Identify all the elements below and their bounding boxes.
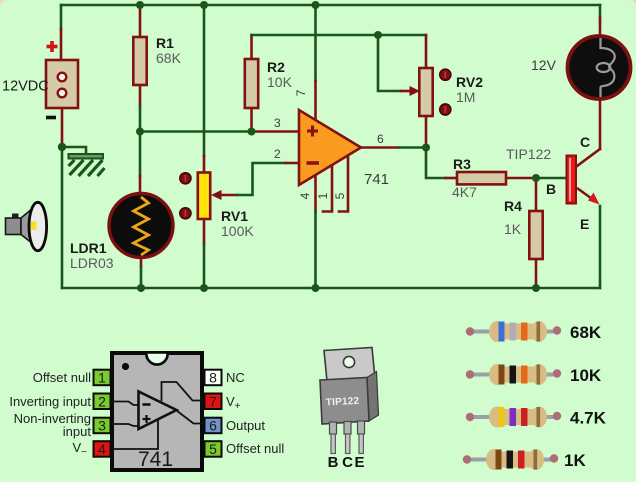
wire R4 bottom to bus bbox=[535, 259, 538, 288]
resistor colour code 4.7K bbox=[466, 407, 607, 428]
op-amp U1 741 bbox=[299, 110, 389, 188]
wire V+ horizontal net R2 to RV2 bbox=[252, 34, 427, 37]
svg-text:1: 1 bbox=[98, 370, 106, 386]
pin 7 bbox=[205, 394, 222, 410]
resistor colour code 1K bbox=[463, 449, 587, 470]
wire RV1 wiper to pin2 bbox=[215, 194, 237, 197]
svg-text:12VDC: 12VDC bbox=[2, 79, 49, 95]
pin labels left bbox=[9, 370, 91, 458]
wire bottom ground bus bbox=[62, 287, 600, 290]
svg-text:Output: Output bbox=[226, 418, 265, 433]
svg-text:7: 7 bbox=[209, 393, 217, 409]
svg-text:2: 2 bbox=[274, 147, 281, 161]
junction node 12VDC minus / ground bbox=[58, 143, 66, 151]
svg-text:RV2: RV2 bbox=[456, 74, 483, 90]
ground symbol bbox=[69, 154, 105, 176]
svg-text:input: input bbox=[63, 424, 92, 439]
leg E bbox=[358, 421, 365, 434]
svg-text:E: E bbox=[580, 216, 589, 232]
svg-text:6: 6 bbox=[377, 132, 384, 146]
pin 4 bbox=[94, 441, 111, 457]
wire output node down to R3 bbox=[426, 148, 446, 179]
pin 6 bbox=[205, 418, 222, 434]
svg-text:Offset null: Offset null bbox=[226, 441, 284, 456]
svg-text:12V: 12V bbox=[531, 57, 557, 73]
svg-text:4K7: 4K7 bbox=[452, 184, 477, 200]
svg-text:5: 5 bbox=[333, 192, 347, 199]
svg-text:Inverting input: Inverting input bbox=[9, 394, 91, 409]
leg B bbox=[330, 422, 337, 434]
svg-text:B: B bbox=[328, 454, 339, 471]
junction dot bus LDR bbox=[137, 284, 145, 292]
svg-text:3: 3 bbox=[274, 116, 281, 130]
svg-text:1K: 1K bbox=[504, 221, 522, 237]
wire lamp bottom collector bbox=[599, 100, 602, 149]
resistor colour code 68K bbox=[466, 321, 602, 342]
junction dot top rail pin7 bbox=[312, 1, 320, 9]
wire LDR bottom to bus bbox=[140, 257, 143, 267]
svg-text:TIP122: TIP122 bbox=[506, 146, 551, 162]
svg-text:100K: 100K bbox=[221, 223, 254, 239]
torch icon bbox=[6, 202, 47, 250]
TIP122 package drawing bbox=[320, 348, 379, 472]
wire node to LDR top bbox=[139, 176, 142, 194]
junction dot top rail RV1 bbox=[200, 1, 208, 9]
svg-text:7: 7 bbox=[294, 89, 308, 96]
svg-text:TIP122: TIP122 bbox=[326, 396, 360, 409]
junction dot V+ net RV2 wiper bbox=[374, 31, 382, 39]
leg C bbox=[344, 422, 351, 435]
wire R3 right to base node bbox=[506, 177, 536, 180]
svg-text:NC: NC bbox=[226, 370, 245, 385]
wire RV2 bottom stub bbox=[425, 116, 428, 148]
LDR LDR1 bbox=[70, 194, 173, 272]
svg-text:C: C bbox=[580, 134, 590, 150]
minus symbol bbox=[46, 116, 56, 120]
svg-text:LDR03: LDR03 bbox=[70, 255, 114, 271]
wire pin5 stub bbox=[339, 153, 348, 212]
wire connector minus down bbox=[61, 108, 64, 147]
svg-text:Offset null: Offset null bbox=[33, 370, 91, 385]
wire red stub into connector plus bbox=[60, 29, 63, 62]
wire pin4 to bus bbox=[314, 172, 317, 212]
junction dot output node bbox=[422, 144, 430, 152]
connector 12VDC body bbox=[46, 60, 78, 108]
svg-text:R3: R3 bbox=[453, 156, 471, 172]
wire R1 top stub bbox=[139, 5, 142, 37]
svg-text:1: 1 bbox=[316, 192, 330, 199]
svg-text:5: 5 bbox=[209, 441, 217, 457]
wire emitter to bus bbox=[599, 206, 602, 288]
pin labels right bbox=[226, 370, 284, 456]
wire R2 bottom stub bbox=[250, 108, 253, 132]
wire left ground rail down bbox=[61, 147, 64, 288]
junction dot bus pin4 bbox=[312, 284, 320, 292]
svg-text:R4: R4 bbox=[504, 198, 522, 214]
junction dot pin3 node R1 bbox=[136, 128, 144, 136]
wire pin6 output bbox=[361, 146, 399, 149]
pin 8 bbox=[205, 370, 222, 386]
resistor colour code 10K bbox=[466, 364, 602, 385]
svg-text:LDR1: LDR1 bbox=[70, 240, 107, 256]
resistor R3 bbox=[457, 172, 506, 184]
transistor Q1 TIP122 bbox=[506, 134, 600, 232]
wire RV2 wiper branch bbox=[378, 35, 401, 91]
potentiometer RV1 bbox=[180, 173, 255, 240]
wire R4 top stub bbox=[535, 178, 538, 211]
svg-text:741: 741 bbox=[364, 171, 389, 188]
pin 3 bbox=[94, 418, 111, 434]
svg-text:B: B bbox=[546, 181, 556, 197]
svg-text:R1: R1 bbox=[156, 35, 174, 51]
wire ground branch bbox=[62, 147, 86, 155]
svg-text:10K: 10K bbox=[570, 366, 602, 385]
resistor R2 bbox=[245, 59, 258, 108]
lamp 12V bbox=[531, 36, 631, 99]
pin 1 bbox=[94, 370, 111, 386]
svg-text:3: 3 bbox=[98, 418, 106, 434]
svg-text:4: 4 bbox=[98, 441, 106, 457]
resistor R1 bbox=[133, 37, 146, 85]
wire base node to transistor bbox=[536, 177, 567, 180]
wire R2 top stub bbox=[250, 35, 253, 59]
pin 5 bbox=[205, 441, 222, 457]
junction dot top rail R1 bbox=[136, 1, 144, 9]
pin 2 bbox=[94, 394, 111, 410]
svg-text:8: 8 bbox=[209, 370, 217, 386]
svg-text:68K: 68K bbox=[570, 323, 602, 342]
resistor R4 bbox=[529, 211, 542, 259]
svg-text:10K: 10K bbox=[267, 74, 293, 90]
svg-text:6: 6 bbox=[209, 418, 217, 434]
wire pin3 net horizontal bbox=[140, 130, 252, 133]
svg-text:4.7K: 4.7K bbox=[570, 409, 607, 428]
wire lamp top stub bbox=[599, 5, 602, 18]
junction dot base node bbox=[532, 174, 540, 182]
svg-text:4: 4 bbox=[298, 192, 312, 199]
svg-text:1M: 1M bbox=[456, 89, 475, 105]
wire pin7 drop bbox=[314, 5, 317, 81]
junction dot bus RV1 bbox=[200, 284, 208, 292]
wire RV2 top stub bbox=[425, 35, 428, 68]
IC pinout 741 diagram bbox=[9, 353, 284, 472]
svg-text:68K: 68K bbox=[156, 50, 182, 66]
potentiometer RV2 bbox=[410, 68, 484, 116]
svg-text:R2: R2 bbox=[267, 59, 285, 75]
wire RV1 bottom to bus bbox=[203, 219, 206, 244]
junction dot bus R4 bbox=[532, 284, 540, 292]
svg-text:C: C bbox=[342, 454, 353, 471]
wire pin1 stub bbox=[323, 162, 332, 212]
wire top +12V rail bbox=[61, 4, 600, 7]
wire RV1 branch vertical from rail bbox=[203, 5, 206, 156]
svg-text:741: 741 bbox=[138, 448, 173, 471]
plus symbol bbox=[47, 41, 58, 52]
svg-text:RV1: RV1 bbox=[221, 208, 248, 224]
wire R1 bottom to node bbox=[139, 85, 142, 106]
svg-text:E: E bbox=[354, 454, 364, 471]
svg-text:2: 2 bbox=[98, 393, 106, 409]
svg-text:1K: 1K bbox=[564, 451, 586, 470]
wire left drop to 12VDC connector bbox=[60, 5, 63, 29]
junction dot pin3 node R2 bbox=[248, 128, 256, 136]
